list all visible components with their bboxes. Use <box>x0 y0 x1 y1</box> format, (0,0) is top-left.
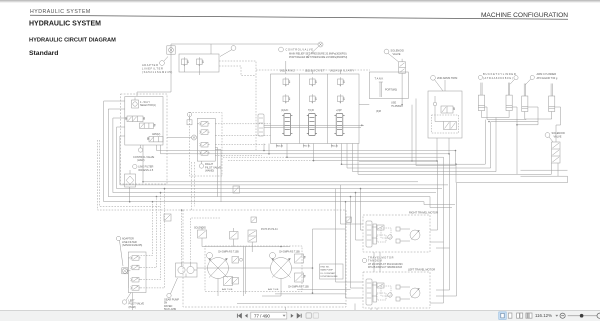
wire drop R7 branch <box>436 289 450 291</box>
pump compensator valve CV2 <box>295 273 306 282</box>
svg-text:HYDRAULIC CIRCUIT DIAGRAM: HYDRAULIC CIRCUIT DIAGRAM <box>29 38 116 44</box>
dashed pilot line b1 <box>215 135 270 137</box>
wire arm cyl bottom 1 <box>525 112 552 120</box>
right travel motor enclosure <box>363 215 430 252</box>
dashed pilot riser 2 <box>141 197 157 268</box>
wire tank drop <box>411 105 413 138</box>
dashed gear pump riser <box>181 210 183 263</box>
last page button <box>297 314 301 318</box>
next view icon <box>313 313 318 318</box>
trim valve TV1 <box>441 106 455 113</box>
callout circle 5 right pilot valve <box>199 161 203 168</box>
page number field <box>251 312 287 319</box>
main spool S3 auxiliary <box>334 114 344 136</box>
svg-text:PB1 B1: PB1 B1 <box>303 146 311 148</box>
label control valve ham <box>133 155 155 162</box>
connector marker on pilot bundle <box>164 214 171 221</box>
wire stair 4 <box>314 144 438 161</box>
wire drop R7 <box>449 248 451 290</box>
first page button <box>237 314 241 318</box>
wire pump riser top <box>313 228 346 230</box>
wire trim feed top <box>444 80 446 91</box>
svg-text:MAIN PUMP: MAIN PUMP <box>321 269 334 272</box>
straight travel spool <box>258 114 264 136</box>
wire X3 left feed <box>167 137 192 139</box>
wire travel feed 6 <box>336 189 364 282</box>
pump valve PS3 <box>248 230 257 242</box>
two page cover mode icon <box>526 313 532 318</box>
port relief valve PR6 <box>338 94 345 103</box>
label adapter line filter <box>142 63 172 74</box>
port relief valve PR5 <box>310 94 317 103</box>
svg-text:(HAM): (HAM) <box>137 158 145 162</box>
top window shadow <box>0 0 600 3</box>
label right pilot valve <box>205 162 221 173</box>
shuttle valve between pumps <box>232 257 243 264</box>
svg-text:75-35/B13: 75-35/B13 <box>391 105 403 108</box>
wire trim internal 1 <box>435 106 444 122</box>
svg-text:C O N T R O L V A L V E: C O N T R O L V A L V E <box>286 49 314 52</box>
callout circle 9 solenoid <box>545 133 553 142</box>
svg-text:116.12%: 116.12% <box>535 313 552 318</box>
svg-text:PA1 A1: PA1 A1 <box>331 145 339 148</box>
wire drop R1 <box>455 151 457 165</box>
leader CY3 <box>525 79 531 85</box>
wire filter box feed <box>210 44 212 54</box>
label line filter <box>138 165 154 172</box>
previous view icon <box>306 313 311 318</box>
wire inter pump pair 1 <box>243 247 245 297</box>
gear pump circle 1 <box>178 263 185 274</box>
wire arm to solenoid <box>555 107 561 142</box>
pilot valve box right <box>197 118 215 161</box>
wire feeder F2 <box>430 197 452 208</box>
two page mode icon <box>517 313 523 318</box>
wire bus L3 <box>113 118 436 193</box>
wire arm return left <box>517 107 538 125</box>
right travel motor internals <box>366 221 420 247</box>
dashed pilot drop b <box>194 162 196 206</box>
dashed pilot riser 1 <box>141 202 153 256</box>
label use 75 <box>391 102 403 108</box>
svg-text:HYDRAULIC SYSTEM: HYDRAULIC SYSTEM <box>30 9 91 15</box>
wire bank to bus drop 1 <box>223 156 287 158</box>
wire gear pump out <box>194 269 197 271</box>
svg-text:SELECTOR(1): SELECTOR(1) <box>140 104 156 107</box>
wire pump bottom drain <box>262 279 281 297</box>
wire feeder F1 <box>424 202 455 205</box>
relief valve RV2 <box>197 57 204 66</box>
wire pilot drop solid 1 <box>215 148 217 197</box>
wire trim bottom bus 1 <box>359 138 412 161</box>
wire pump output right <box>292 267 313 269</box>
bucket cylinder CY2 <box>506 83 512 111</box>
label arm cylinder <box>537 72 558 80</box>
wire bank feed vertical 1 <box>285 61 287 74</box>
port relief valve PR1 <box>283 77 290 86</box>
pump enclosure dashed <box>183 210 346 307</box>
pilot feed manifold wire <box>197 124 199 155</box>
spec label box <box>320 264 344 279</box>
wire bucket cyl1 lines <box>482 111 510 118</box>
label gear pump <box>164 298 179 311</box>
svg-text:(B1) B U C K E T: (B1) B U C K E T <box>305 69 325 73</box>
dashed pilot line a2 <box>215 123 270 125</box>
dashed pilot line from filter box <box>219 61 370 150</box>
svg-text:PA2 A2: PA2 A2 <box>276 145 284 148</box>
svg-text:L I N E F I L T E R: L I N E F I L T E R <box>142 67 163 71</box>
solenoid valve SVR <box>552 142 561 163</box>
gear pump box <box>176 263 198 277</box>
wire bus L2 <box>108 109 430 197</box>
prev page button <box>245 314 248 318</box>
wire lp box bottom drop <box>132 293 134 311</box>
svg-text:HYDRAULIC SYSTEM: HYDRAULIC SYSTEM <box>29 21 101 28</box>
wire bucket return <box>485 107 487 120</box>
carry-over bus wire lower <box>264 127 361 129</box>
wire drop R4 <box>430 157 444 303</box>
wire stair 1 <box>264 144 456 151</box>
wire pump drain 3 <box>297 289 351 291</box>
svg-text:CH-DMPA RS T.10B: CH-DMPA RS T.10B <box>279 251 300 254</box>
wire lp manifold <box>128 258 130 288</box>
callout circle 7 travel motor <box>362 258 366 262</box>
wire right edge riser <box>521 169 568 171</box>
wire bus L5 <box>120 136 448 185</box>
svg-text:(HAND): (HAND) <box>205 169 214 173</box>
wire stair 6 <box>347 144 491 169</box>
wire top bus <box>171 44 318 54</box>
enclosure control valve dashed <box>121 94 168 184</box>
wire drop R2 <box>455 164 457 182</box>
svg-text:PORT RELIEF SET PRESSURE 24.5M: PORT RELIEF SET PRESSURE 24.5MPa(3600PSI… <box>289 56 347 59</box>
main spool S2 bucket <box>307 114 317 136</box>
directional spool DS1 <box>125 116 145 122</box>
connector X3 <box>192 135 197 140</box>
directional spool DS2 <box>140 123 156 128</box>
svg-text:ATD E4A30 T30 g: ATD E4A30 T30 g <box>537 76 558 80</box>
callout circle 1 arm rod <box>530 75 534 79</box>
travel motor left enclosure <box>363 272 430 308</box>
main pump circle <box>271 258 292 279</box>
wire drop R6 <box>430 161 438 230</box>
control valve inner box <box>125 97 163 146</box>
shuttle valve lower <box>232 278 239 285</box>
relief valve RV1 <box>182 57 189 66</box>
pilot valve LP4 <box>130 286 140 291</box>
svg-text:W21ESS-1.5: W21ESS-1.5 <box>138 168 154 172</box>
wire stair 5 <box>342 144 486 165</box>
dashed pilot line a1 <box>215 144 266 146</box>
tank box <box>369 72 408 99</box>
charge pump A circle <box>207 253 213 259</box>
label 4-way selector <box>140 101 156 107</box>
wire tank drop 2 <box>416 99 456 166</box>
wire long return right <box>457 176 568 182</box>
wire bank to bus drop 2 <box>228 160 314 162</box>
wire ps3 drop <box>251 242 253 252</box>
zoom slider <box>568 315 597 317</box>
wire solenoid drop right <box>521 163 559 176</box>
wire drop R5 <box>436 183 457 296</box>
dashed far-left drain 1 <box>98 140 184 210</box>
label left pilot valve <box>129 300 145 309</box>
section marker Y <box>346 217 351 222</box>
label travel motor tandem <box>368 256 403 269</box>
callout circle 4 control valve <box>138 145 142 152</box>
gear pump circle 2 <box>187 263 194 274</box>
solenoid valve SVT <box>399 59 406 73</box>
label spec text <box>321 267 339 279</box>
svg-text:+(3)P: +(3)P <box>336 110 342 112</box>
wire to bottom edge 2 <box>354 308 356 311</box>
port relief valve PR4 <box>283 94 290 103</box>
selector valve SEL1 <box>132 98 139 109</box>
callout circle 7 hose <box>220 46 236 57</box>
pump compensator valve CV1 <box>295 254 306 263</box>
dashed far-left drain 2 <box>100 140 161 206</box>
leader CY2 <box>510 80 514 85</box>
wire bucket cross <box>512 107 517 174</box>
section marker Z <box>251 217 256 222</box>
directional spool DS3 <box>147 137 163 142</box>
zoom in button (clipped at edge) <box>597 313 600 318</box>
carry-over bus wire upper <box>264 124 364 126</box>
svg-text:ARM CYLINDER: ARM CYLINDER <box>537 72 557 76</box>
wire pilot drop solid 2 <box>215 150 221 202</box>
pilot valve LP1 <box>130 256 140 261</box>
wire stair 8 <box>358 144 551 175</box>
svg-text:CH-DMPA RS T.10B: CH-DMPA RS T.10B <box>288 285 309 288</box>
callout circle 4 adapter filter lower <box>116 236 123 266</box>
wire stair left tail 2 <box>161 145 270 154</box>
wire bank feed vertical 3 <box>339 70 341 74</box>
wire bucket bus 2 <box>491 121 538 123</box>
svg-text:MAIN RELIEF SET PRESSURE 20.6M: MAIN RELIEF SET PRESSURE 20.6MPa(3000PSI… <box>289 52 347 55</box>
connector marker on bus <box>233 186 240 193</box>
pilot valve LP2 <box>130 265 140 270</box>
wire left travel bottom stub 1 <box>370 308 372 311</box>
svg-text:77 / 490: 77 / 490 <box>254 313 270 318</box>
wire control valve drop 2 <box>143 145 418 182</box>
svg-text:( S A 5 2 1 1 S G M 2 4 5 ): ( S A 5 2 1 1 S G M 2 4 5 ) <box>142 70 172 74</box>
svg-text:(SA5211SGM245): (SA5211SGM245) <box>122 244 142 247</box>
wire pump A drain <box>217 279 219 297</box>
bucket cylinder CY1 <box>478 83 484 111</box>
wire left drop to enclosure <box>354 304 356 308</box>
connector X4 <box>122 268 128 274</box>
pilot valve RP1 <box>199 122 209 127</box>
wire pump risers <box>312 229 314 294</box>
wire bus L1 <box>104 101 424 202</box>
wire pump top manifold 2 <box>233 239 235 247</box>
bank section divider 2 <box>327 74 329 144</box>
left pilot valve box <box>128 252 146 293</box>
wire bucket drop 2 <box>490 122 492 168</box>
dashed pilot drop a <box>191 162 193 210</box>
wire stair 2 <box>269 144 450 154</box>
label adapter line filter lower <box>122 238 142 248</box>
wire control valve drop 1 <box>129 188 131 202</box>
label control valve relief settings <box>286 49 348 60</box>
arm trim inner dashed box <box>432 115 459 133</box>
pump valve PS2 <box>230 228 239 239</box>
dashed gear pump riser 2 <box>191 218 221 263</box>
valve bank outline <box>271 74 360 144</box>
wire inter travel 2 <box>379 252 381 272</box>
wire travel feed 1 <box>346 202 364 298</box>
wire connector drop <box>137 54 171 96</box>
pilot valve RP3 <box>199 142 209 147</box>
svg-text:( A T D 4 A 6 0 K 0 8 0 G ): ( A T D 4 A 6 0 K 0 8 0 G ) <box>483 76 513 80</box>
svg-text:VALVE: VALVE <box>554 135 562 139</box>
callout circle 21 solenoid top <box>384 49 398 62</box>
pump A servo valve <box>224 277 233 286</box>
callout circle 10 line filter <box>133 164 137 168</box>
gauge pipe <box>379 82 383 97</box>
label solenoid valve top <box>391 49 405 56</box>
zoom out button <box>560 313 565 318</box>
wire RV2 drain <box>198 66 200 75</box>
wire trim drop 2 <box>448 138 450 154</box>
wire inter pump pair 2 <box>245 247 247 294</box>
wire trim drop 1 <box>436 138 438 161</box>
pumps inner dashed enclosure <box>205 246 302 292</box>
callout circle 6 left pilot valve <box>122 293 131 305</box>
svg-text:ENG NO.: ENG NO. <box>321 267 331 269</box>
dashed pilot riser 4 <box>141 189 165 288</box>
dashed pilot line t <box>215 154 262 156</box>
pilot enclosure dashed <box>190 113 223 177</box>
line filter F2 <box>125 170 136 188</box>
svg-text:DPS/PRESSURE: DPS/PRESSURE <box>321 276 339 278</box>
bank port stubs <box>277 144 337 148</box>
svg-text:P4 P3 P1 P2 A4: P4 P3 P1 P2 A4 <box>261 228 278 231</box>
wire bucket bus 1 <box>487 119 526 121</box>
wire gear pump feed <box>185 274 187 278</box>
pilot valve LP3 <box>130 277 140 282</box>
svg-text:KL CONSTANT: KL CONSTANT <box>321 272 337 275</box>
svg-text:PORT(M3): PORT(M3) <box>385 88 397 91</box>
svg-text:SOLENOID: SOLENOID <box>194 228 206 230</box>
wire stair 7 <box>353 144 497 172</box>
charge pump circle <box>270 253 276 259</box>
wire travel feed 3 <box>356 193 364 240</box>
wire travel feed 5 <box>341 185 364 224</box>
label bucket cylinder <box>483 72 516 80</box>
svg-text:LEFT TRAVEL MOTOR: LEFT TRAVEL MOTOR <box>408 268 435 272</box>
bank section divider 1 <box>299 74 301 144</box>
pilot valve RP2 <box>199 130 209 135</box>
left travel motor internals <box>366 279 420 305</box>
wire stair left tail 1 <box>157 145 265 151</box>
wire inter travel 1 <box>373 252 375 272</box>
port relief valve PR3 <box>338 77 345 86</box>
callout circle 4 adapter line filter <box>160 57 168 66</box>
wire drop R4 stub <box>430 241 444 243</box>
main pump A circle <box>208 258 229 279</box>
callout circle 6 bucket rod <box>514 76 518 80</box>
next page button <box>291 314 294 318</box>
wire bucket drop 3 <box>495 118 497 172</box>
svg-text:T A N K: T A N K <box>375 77 384 81</box>
svg-text:RIGHT TRAVEL MOTOR: RIGHT TRAVEL MOTOR <box>409 211 438 215</box>
svg-text:(A1) A U X I L I A R Y: (A1) A U X I L I A R Y <box>330 69 354 73</box>
svg-text:CH-DMPA RS T.10B: CH-DMPA RS T.10B <box>218 251 239 254</box>
svg-text:SOLENOID: SOLENOID <box>552 131 566 135</box>
connector circle X2 <box>306 42 323 58</box>
pilot valve RP4 <box>199 151 209 156</box>
single page mode icon (active) <box>499 312 506 319</box>
trim valve TV2 <box>444 122 457 130</box>
svg-text:Standard: Standard <box>29 50 58 57</box>
arm trim box <box>428 91 462 138</box>
connector X1 quick coupler <box>167 46 175 54</box>
port relief valve PR2 <box>310 77 317 86</box>
svg-text:(3)M: (3)M <box>376 110 381 113</box>
check valve diamond <box>433 96 437 106</box>
filter box B1 <box>179 54 219 72</box>
svg-text:A D A P T E R: A D A P T E R <box>142 63 158 67</box>
svg-text:2ND ARMS TRIM: 2ND ARMS TRIM <box>437 76 457 80</box>
wire to bottom edge 1 <box>285 307 287 311</box>
wire bucket drop 1 <box>484 120 486 165</box>
wire X4 to box <box>128 270 131 272</box>
svg-text:CONTROL VALVE: CONTROL VALVE <box>133 155 155 159</box>
main spool S1 arm2 <box>282 114 292 136</box>
callout circle 8 arm trim <box>431 75 443 91</box>
continuous page mode icon <box>508 313 512 318</box>
wire travel feed 4 <box>361 189 364 230</box>
svg-text:ARM(2): ARM(2) <box>152 133 160 136</box>
wire tank left port <box>359 104 369 106</box>
arm cylinder CY4 <box>549 84 555 112</box>
wire bucket cyl2 lines <box>508 111 510 118</box>
wire RV1 drain <box>183 66 185 72</box>
wire left travel bottom stub 2 <box>376 308 378 311</box>
svg-text:B U C K E T C Y L I N D E R: B U C K E T C Y L I N D E R <box>483 72 516 76</box>
svg-text:(2)A2C: (2)A2C <box>281 109 289 112</box>
svg-text:RH 2B DISPLCT 984/B04CM3: RH 2B DISPLCT 984/B04CM3 <box>368 266 402 269</box>
wire trim bottom bus 2 <box>412 160 437 162</box>
wire bank feed vertical 2 <box>311 70 313 74</box>
arrowhead carry-over <box>361 124 364 126</box>
svg-text:A0B T.10B: A0B T.10B <box>222 288 233 291</box>
callout A control valve <box>279 47 284 52</box>
callout circle 5 bucket rod <box>478 75 482 79</box>
wire pump top manifold <box>202 243 290 247</box>
connector small box P5 <box>187 112 192 125</box>
junction dots row bus <box>152 201 154 203</box>
wire stair 3 <box>287 144 444 158</box>
wire pump case line <box>237 303 346 305</box>
wire pump drain 2 <box>275 293 346 295</box>
wire drop R3 <box>436 154 450 248</box>
wire solenoid to corner <box>558 175 568 177</box>
svg-text:VALVE: VALVE <box>393 52 401 56</box>
wire solenoid to tank box <box>401 73 403 105</box>
wire pump left suction <box>197 267 271 269</box>
dashed pilot riser 3 <box>141 193 161 280</box>
pump solenoid valve PS1 <box>198 227 207 244</box>
arm cylinder CY3 <box>522 84 528 112</box>
wire bus L4 <box>117 127 442 189</box>
label solenoid valve right <box>552 131 566 138</box>
svg-text:T(1)B: T(1)B <box>308 110 314 112</box>
wire arm cyl bottom 2 <box>551 112 553 120</box>
svg-text:(HAM): (HAM) <box>129 306 136 309</box>
svg-text:A0B T.10B: A0B T.10B <box>268 288 279 291</box>
